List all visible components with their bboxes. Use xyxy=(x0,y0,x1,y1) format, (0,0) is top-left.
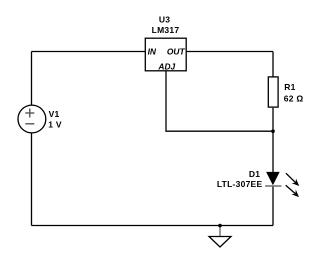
svg-text:LTL-307EE: LTL-307EE xyxy=(217,179,263,189)
svg-text:ADJ: ADJ xyxy=(157,62,175,72)
svg-text:U3: U3 xyxy=(159,15,170,25)
svg-text:62 Ω: 62 Ω xyxy=(284,93,304,103)
svg-text:D1: D1 xyxy=(249,169,260,179)
svg-text:IN: IN xyxy=(148,47,157,57)
svg-text:1 V: 1 V xyxy=(48,119,62,129)
svg-text:OUT: OUT xyxy=(167,47,186,57)
svg-text:V1: V1 xyxy=(49,109,60,119)
svg-text:R1: R1 xyxy=(284,82,295,92)
svg-text:LM317: LM317 xyxy=(152,25,180,35)
